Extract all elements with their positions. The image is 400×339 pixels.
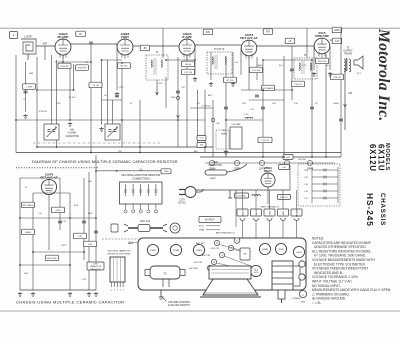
svg-text:GREEN: GREEN bbox=[256, 209, 258, 217]
svg-text:OSC: OSC bbox=[243, 254, 248, 256]
svg-text:4700 R1: 4700 R1 bbox=[39, 111, 48, 113]
svg-text:CONV: CONV bbox=[121, 35, 129, 39]
svg-text:R11 150: R11 150 bbox=[318, 61, 327, 63]
svg-text:PART TRAY ANT-#1: PART TRAY ANT-#1 bbox=[261, 206, 281, 209]
svg-text:CHASSIS: CHASSIS bbox=[379, 193, 386, 226]
svg-text:-8V: -8V bbox=[143, 47, 147, 50]
svg-text:12BA6: 12BA6 bbox=[262, 248, 269, 251]
svg-text:C5 .05: C5 .05 bbox=[92, 85, 99, 87]
svg-text:R-C: R-C bbox=[279, 65, 283, 67]
svg-text:CHASSIS USING MULTIPLE CERAMIC: CHASSIS USING MULTIPLE CERAMIC CAPACITOR bbox=[16, 300, 124, 305]
svg-text:AM: AM bbox=[70, 129, 74, 132]
svg-text:TUNING: TUNING bbox=[292, 298, 301, 300]
svg-text:ON: ON bbox=[282, 167, 286, 169]
svg-text:R7 47K: R7 47K bbox=[226, 80, 234, 82]
svg-text:LINE: LINE bbox=[93, 264, 98, 266]
svg-text:ANT: ANT bbox=[129, 241, 134, 244]
svg-text:94V: 94V bbox=[206, 31, 211, 34]
svg-text:AC-DC: AC-DC bbox=[178, 202, 186, 205]
svg-text:C17: C17 bbox=[335, 40, 340, 43]
svg-text:GND: GND bbox=[301, 302, 306, 304]
svg-text:OSC PRI: OSC PRI bbox=[193, 262, 202, 264]
svg-text:FULL: FULL bbox=[199, 226, 205, 228]
svg-text:ANT SEC: ANT SEC bbox=[196, 242, 205, 245]
svg-text:○ = B-.: ○ = B-. bbox=[312, 301, 322, 305]
svg-text:C18 .05: C18 .05 bbox=[333, 77, 341, 79]
svg-text:47 MEG: 47 MEG bbox=[237, 195, 245, 197]
svg-text:PWR AMP: PWR AMP bbox=[315, 34, 329, 38]
svg-text:B+ REST: B+ REST bbox=[205, 219, 215, 221]
svg-text:LOOP: LOOP bbox=[24, 35, 31, 39]
svg-text:100K: 100K bbox=[87, 213, 93, 215]
svg-text:R14 220K: R14 220K bbox=[47, 258, 57, 260]
svg-text:35C5: 35C5 bbox=[61, 245, 67, 247]
svg-text:HS-245: HS-245 bbox=[365, 193, 375, 227]
svg-text:AVC: AVC bbox=[194, 150, 199, 153]
svg-text:RED: RED bbox=[283, 210, 285, 215]
svg-text:C-15: C-15 bbox=[244, 114, 250, 116]
svg-text:LINE: LINE bbox=[212, 162, 218, 164]
svg-text:OSC SEC: OSC SEC bbox=[189, 268, 199, 270]
svg-text:3: 3 bbox=[117, 290, 118, 292]
svg-text:10K: 10K bbox=[88, 244, 92, 246]
svg-text:3 GANG: 3 GANG bbox=[68, 132, 77, 135]
svg-text:2: 2 bbox=[114, 290, 115, 292]
svg-text:105V: 105V bbox=[334, 29, 340, 32]
svg-text:1200 R2: 1200 R2 bbox=[60, 66, 69, 68]
svg-text:12AT6: 12AT6 bbox=[150, 249, 157, 252]
svg-text:VOLUME: VOLUME bbox=[231, 124, 241, 126]
svg-text:CAPACITOR: CAPACITOR bbox=[90, 265, 102, 268]
svg-text:12BA6: 12BA6 bbox=[173, 249, 180, 252]
svg-text:R6 68: R6 68 bbox=[185, 64, 192, 66]
svg-text:1500 R3: 1500 R3 bbox=[78, 67, 87, 69]
svg-text:C16 .02: C16 .02 bbox=[294, 84, 302, 86]
svg-text:1: 1 bbox=[111, 290, 112, 292]
svg-text:RF AMP: RF AMP bbox=[58, 35, 69, 39]
svg-text:AVC: AVC bbox=[208, 94, 213, 97]
svg-text:DET-AVC-AF: DET-AVC-AF bbox=[240, 36, 258, 40]
svg-text:BLACK: BLACK bbox=[242, 209, 245, 216]
svg-text:SW1: SW1 bbox=[286, 157, 292, 159]
svg-text:C12 750: C12 750 bbox=[184, 72, 193, 74]
svg-text:IF AMP: IF AMP bbox=[182, 35, 192, 39]
svg-text:ANT: ANT bbox=[43, 43, 48, 46]
svg-text:OSC: OSC bbox=[118, 151, 123, 153]
svg-text:5: 5 bbox=[123, 290, 124, 292]
svg-text:R4 22K: R4 22K bbox=[120, 65, 128, 67]
svg-text:DIAGRAM OF CHASSIS USING MULTI: DIAGRAM OF CHASSIS USING MULTIPLE CERAMI… bbox=[32, 159, 178, 164]
svg-text:BROWN: BROWN bbox=[297, 209, 299, 217]
svg-text:TRAY: TRAY bbox=[199, 229, 205, 232]
svg-text:CONNECTIONS: CONNECTIONS bbox=[132, 177, 150, 180]
svg-text:12BE6: 12BE6 bbox=[196, 250, 203, 252]
svg-text:OSC: OSC bbox=[158, 83, 163, 85]
svg-text:OSC PRI: OSC PRI bbox=[210, 248, 219, 250]
svg-text:1MEG: 1MEG bbox=[25, 232, 31, 234]
svg-text:TRANS: TRANS bbox=[344, 53, 352, 56]
svg-text:1MEG: 1MEG bbox=[257, 65, 263, 67]
svg-text:RESISTOR: RESISTOR bbox=[90, 269, 101, 271]
svg-text:C15 .05: C15 .05 bbox=[261, 140, 269, 142]
svg-text:C701: C701 bbox=[118, 87, 124, 89]
svg-text:0V: 0V bbox=[79, 33, 82, 36]
svg-text:20MF: 20MF bbox=[333, 103, 339, 105]
svg-text:VC 1: VC 1 bbox=[357, 73, 363, 75]
svg-text:RESISTOR (TOP VIEW): RESISTOR (TOP VIEW) bbox=[108, 253, 131, 255]
svg-text:OUTPUT: OUTPUT bbox=[343, 51, 353, 53]
svg-text:470K: 470K bbox=[55, 210, 61, 212]
svg-text:CAPACITOR: CAPACITOR bbox=[65, 135, 79, 138]
svg-text:MULTIPLE CAPACITOR: MULTIPLE CAPACITOR bbox=[108, 250, 131, 253]
svg-text:T3 1ST IF: T3 1ST IF bbox=[214, 48, 225, 51]
svg-text:SOC 101: SOC 101 bbox=[140, 220, 151, 223]
svg-text:GREY: GREY bbox=[210, 178, 217, 180]
svg-text:R12 3MEG: R12 3MEG bbox=[23, 205, 34, 207]
svg-text:+1.34V B+: +1.34V B+ bbox=[201, 106, 212, 108]
svg-text:115V AC: 115V AC bbox=[298, 158, 307, 161]
svg-text:+105: +105 bbox=[56, 103, 62, 105]
svg-text:AND TRAY ANT-#2: AND TRAY ANT-#2 bbox=[216, 232, 236, 235]
svg-text:Motorola Inc.: Motorola Inc. bbox=[375, 28, 392, 122]
svg-text:C 2MF: C 2MF bbox=[26, 86, 33, 88]
svg-text:2MF: 2MF bbox=[29, 73, 34, 75]
svg-text:C11 100: C11 100 bbox=[252, 70, 261, 72]
svg-text:4: 4 bbox=[120, 290, 121, 292]
svg-text:& ON-OFF SWITCH: & ON-OFF SWITCH bbox=[168, 304, 190, 307]
svg-text:LIGHT: LIGHT bbox=[296, 252, 303, 254]
svg-text:R10 1K: R10 1K bbox=[280, 197, 288, 199]
svg-text:ANT PRI: ANT PRI bbox=[202, 254, 211, 257]
svg-text:6X12U: 6X12U bbox=[368, 144, 377, 172]
svg-text:87V: 87V bbox=[266, 30, 271, 33]
svg-text:CAPACITOR: CAPACITOR bbox=[208, 164, 222, 167]
svg-text:1MEG: 1MEG bbox=[221, 133, 227, 135]
svg-text:R9 10MEG: R9 10MEG bbox=[263, 88, 274, 90]
svg-text:ORN: ORN bbox=[270, 210, 272, 215]
svg-text:C4 470: C4 470 bbox=[68, 97, 76, 99]
svg-text:35W4: 35W4 bbox=[278, 249, 284, 251]
svg-text:RECT: RECT bbox=[264, 169, 272, 173]
svg-text:DET-AVC-AF: DET-AVC-AF bbox=[40, 175, 58, 179]
svg-text:100K: 100K bbox=[170, 97, 176, 99]
